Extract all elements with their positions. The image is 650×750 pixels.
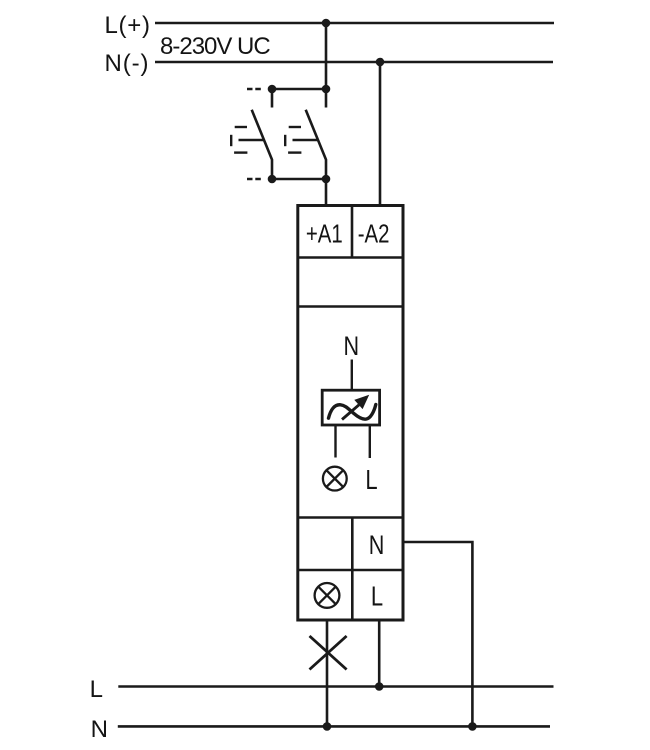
label 8-230V UC <box>160 33 270 60</box>
wire terminal N to bottom N rail <box>405 542 473 726</box>
label terminal -A2 <box>358 219 390 248</box>
svg-text:L: L <box>90 676 103 703</box>
lower terminal row divider <box>298 569 403 572</box>
label terminal L <box>371 581 383 612</box>
svg-text:-A2: -A2 <box>358 219 390 248</box>
pushbutton switch S1 (NO momentary) <box>231 89 272 179</box>
load cross symbol on lamp wire <box>310 636 347 670</box>
terminal row divider line <box>298 256 403 259</box>
label N bottom <box>91 716 108 743</box>
svg-text:N: N <box>91 716 108 743</box>
svg-text:N: N <box>344 332 360 362</box>
label N(-) <box>105 50 150 77</box>
wire pushbutton top rail <box>272 88 326 91</box>
lamp symbol terminal output <box>315 583 340 608</box>
label internal node N <box>344 332 360 362</box>
wire dashed extension bottom rail <box>247 178 262 181</box>
wire from L rail down to pushbutton rail <box>325 23 328 89</box>
svg-text:N(-): N(-) <box>105 50 150 77</box>
junction bottom rail right <box>322 175 331 184</box>
wire L(+) supply rail top <box>155 22 554 25</box>
wire dimmer output left <box>334 425 336 458</box>
dimmer device U1 box outline <box>298 206 403 621</box>
junction lamp wire on bottom N rail <box>323 722 332 731</box>
junction terminal N wire on bottom N rail <box>468 722 477 731</box>
wire bottom L rail <box>118 685 553 688</box>
terminal divider between +A1 and -A2 <box>351 206 354 258</box>
lower terminal vertical divider <box>351 518 354 621</box>
lower terminal grid top line <box>298 516 403 519</box>
wire N(-) supply rail top <box>155 61 553 64</box>
junction terminal L wire on bottom L rail <box>375 682 384 691</box>
junction top rail left <box>268 85 277 94</box>
wire from N rail down to terminal -A2 <box>379 62 382 207</box>
label terminal N <box>369 531 385 561</box>
wire bottom N rail <box>118 725 550 728</box>
label L bottom <box>90 676 103 703</box>
svg-text:L: L <box>371 581 383 612</box>
junction bottom rail left <box>268 175 277 184</box>
wire lamp output to bottom N rail <box>326 620 329 726</box>
dimmer element box <box>322 390 379 425</box>
pushbutton switch S2 (NO momentary) <box>285 89 326 179</box>
lamp symbol internal output <box>323 467 347 491</box>
wire dashed extension top rail <box>247 88 262 91</box>
wire internal N to dimmer element <box>351 360 353 392</box>
label L(+) <box>105 12 151 39</box>
svg-text:+A1: +A1 <box>306 219 343 248</box>
wire dimmer output right <box>369 425 371 458</box>
svg-text:L: L <box>365 465 377 496</box>
junction top rail right <box>322 85 331 94</box>
wire terminal L to bottom L rail <box>378 620 381 687</box>
svg-text:8-230V UC: 8-230V UC <box>160 33 270 60</box>
wire pushbutton bottom rail <box>272 178 326 181</box>
dimmer wave symbol <box>329 405 376 420</box>
label terminal +A1 <box>306 219 343 248</box>
junction on L rail <box>322 19 331 28</box>
junction on N rail <box>376 58 385 67</box>
label internal node L <box>365 465 377 496</box>
svg-text:L(+): L(+) <box>105 12 151 39</box>
dimmer adjustment arrow <box>342 395 369 420</box>
box section divider line <box>298 305 403 308</box>
wire bottom rail to terminal +A1 <box>325 179 328 207</box>
svg-text:N: N <box>369 531 385 561</box>
